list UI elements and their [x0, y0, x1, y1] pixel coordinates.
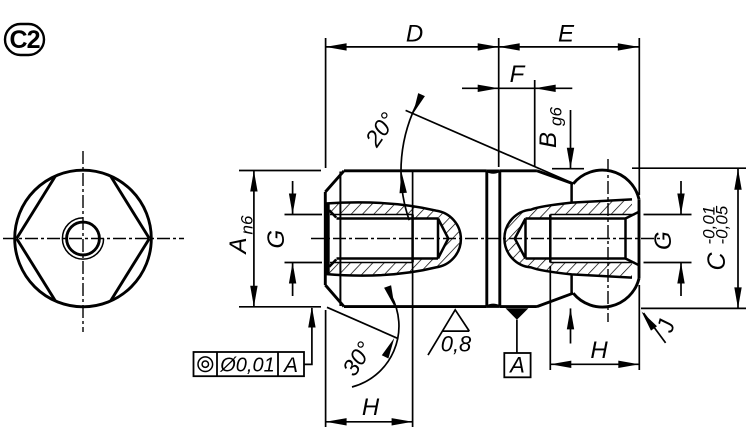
svg-text:A: A [508, 353, 525, 378]
DIMENSION F [462, 61, 572, 167]
left body outline [325, 171, 487, 307]
feature control frame [194, 307, 316, 378]
flange bottom lobe arc [573, 279, 639, 308]
DIMENSION D [326, 21, 499, 169]
label C2 oval [5, 24, 44, 55]
neck groove top [487, 171, 500, 173]
flange face [638, 199, 641, 278]
ANGLE 30 deg [327, 285, 399, 387]
left hatch top band [325, 202, 461, 239]
left thread collar face [324, 204, 330, 273]
left hatch bottom band [325, 238, 461, 275]
horizontal centerline front view [3, 238, 184, 240]
svg-text:g6: g6 [547, 107, 566, 126]
right hatch top band [505, 200, 632, 239]
svg-text:E: E [558, 21, 575, 48]
datum A [504, 308, 530, 377]
svg-text:Ø0,01: Ø0,01 [219, 355, 274, 377]
right drill cone [515, 219, 526, 259]
right hatch bottom band [505, 239, 632, 278]
svg-text:20°: 20° [359, 108, 401, 152]
svg-text:H: H [362, 394, 380, 421]
left drill end and cone [438, 219, 448, 259]
hex flat lower-left [17, 239, 56, 301]
right cavity outline [504, 199, 632, 277]
left thread major lines [330, 215, 413, 263]
right thread major lines [550, 215, 635, 263]
ANGLE 20 deg [359, 93, 573, 220]
svg-text:H: H [590, 337, 608, 364]
hex flat lower-right [111, 239, 150, 301]
DIMENSION H left [326, 172, 413, 427]
DIMENSION A n6 [225, 171, 321, 307]
right mouth face and chamfer [626, 212, 640, 265]
svg-text:F: F [510, 61, 526, 88]
DIMENSION B g6 [535, 107, 584, 344]
svg-text:C: C [703, 252, 731, 271]
surface finish 0,8 [428, 310, 472, 357]
left thread end line [411, 215, 414, 263]
DIMENSION C [632, 168, 746, 308]
svg-text:n6: n6 [238, 215, 257, 234]
left thread minor lines [337, 219, 439, 259]
rim edge verticals [570, 184, 573, 293]
svg-text:G: G [650, 231, 677, 250]
DIMENSION E [499, 21, 640, 196]
right thread end line [549, 215, 552, 263]
svg-text:D: D [406, 21, 423, 48]
neck groove bottom [487, 305, 500, 307]
note J [642, 312, 680, 343]
svg-text:B: B [535, 132, 562, 148]
svg-text:C2: C2 [10, 26, 40, 54]
vertical centerline front view [82, 151, 84, 332]
flange top lobe arc [573, 170, 639, 199]
svg-text:J: J [651, 317, 679, 336]
right body outline [500, 171, 573, 307]
side view horizontal centerline [311, 238, 663, 240]
svg-text:A: A [282, 354, 298, 377]
DIMENSION G right [644, 181, 692, 296]
svg-text:0,8: 0,8 [441, 332, 472, 357]
outer circle front view [15, 170, 152, 307]
svg-text:G: G [263, 230, 290, 249]
flange vertical centerline [607, 159, 609, 322]
hex flat upper-right [111, 176, 150, 238]
svg-text:A: A [225, 237, 252, 255]
svg-text:30°: 30° [337, 337, 378, 380]
hex flat upper-left [17, 176, 56, 238]
tap drill circle [67, 222, 100, 255]
left cavity outline [325, 202, 461, 275]
DIMENSION H right [550, 266, 639, 370]
thread major arc 3/4 [62, 218, 103, 259]
DIMENSION G left [263, 181, 322, 296]
hex tangency line [339, 172, 341, 307]
right thread minor lines [526, 219, 626, 259]
svg-text:-0,05: -0,05 [713, 205, 732, 244]
